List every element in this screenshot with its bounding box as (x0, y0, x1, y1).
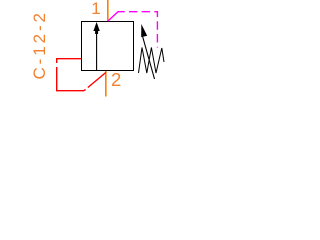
magenta pilot line: dashed run (129, 12, 158, 48)
magenta pilot line from port 1: solid start (108, 12, 125, 21)
spring (139, 48, 165, 74)
port 2 line (105, 71, 107, 97)
svg-text:C-12-2: C-12-2 (30, 10, 49, 79)
svg-text:2: 2 (111, 69, 121, 90)
red pilot line from box left side: top segment (57, 59, 81, 63)
svg-text:1: 1 (91, 0, 100, 18)
adjustment arrow shaft (143, 37, 155, 80)
red pilot line: diagonal to port 2 (84, 73, 106, 91)
flow path arrow (port 2 to port 1) (96, 31, 98, 71)
red pilot line: vertical + bottom segment (57, 67, 84, 91)
port 1 line (107, 0, 109, 21)
valve body envelope (82, 22, 134, 71)
adjustment arrow head (141, 24, 147, 37)
